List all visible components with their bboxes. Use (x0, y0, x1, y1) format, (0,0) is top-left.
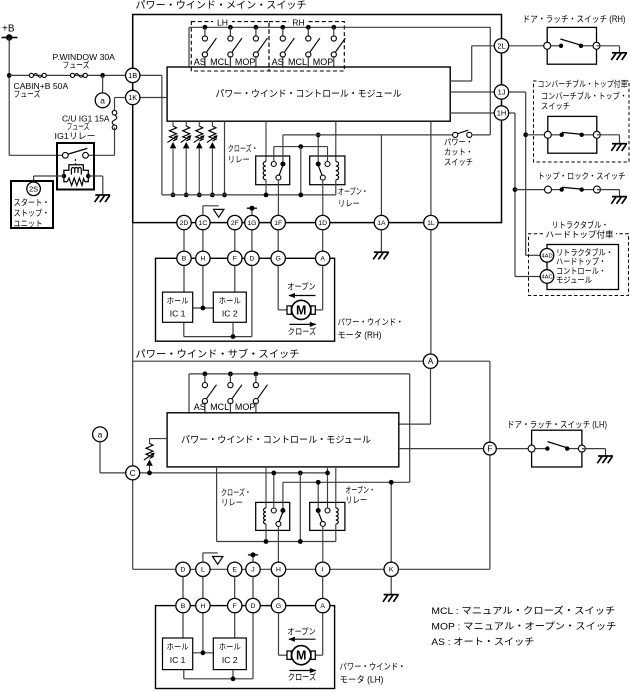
wire switch to module (307, 56, 309, 67)
label open direction (RH) (287, 282, 316, 299)
start stop unit box (11, 181, 53, 228)
label power window motor LH (340, 662, 406, 685)
junction close coil bus (264, 193, 269, 198)
sub switch bus wire (189, 374, 410, 413)
connector 4AC (540, 270, 554, 284)
wire close relay NC riser (273, 147, 275, 162)
dashed box RH switch group (269, 18, 344, 71)
svg-text:パワー・: パワー・ (444, 137, 473, 147)
svg-text:1K: 1K (128, 93, 137, 102)
svg-text:モジュール: モジュール (556, 275, 592, 285)
svg-text:ストップ・: ストップ・ (14, 208, 50, 218)
junction resistor 1 on bus (171, 193, 176, 198)
wire to convertible switch (526, 134, 548, 136)
wire close relay common riser (282, 135, 284, 162)
wire module to 1H (450, 112, 494, 114)
node a (lower) (93, 427, 108, 442)
svg-text:2L: 2L (497, 41, 505, 50)
wire module to close coil (sub) (265, 467, 267, 508)
wire F to hall IC2 (LH) (234, 613, 236, 638)
svg-text:リレー: リレー (345, 495, 367, 505)
label power cut switch (444, 137, 473, 167)
wire G to motor (LH) (279, 613, 288, 655)
stub above J (248, 552, 258, 562)
wire close coil to bus (265, 180, 267, 195)
svg-text:AS : オート・スイッチ: AS : オート・スイッチ (431, 636, 534, 647)
svg-text:M: M (296, 303, 306, 317)
wire K to ground (390, 577, 392, 595)
convertible top switch box (548, 116, 597, 153)
svg-text:パワー・ウインド・コントロール・モジュール: パワー・ウインド・コントロール・モジュール (181, 434, 371, 445)
wire module to LED bus (224, 121, 226, 195)
connector 4AD (540, 249, 554, 263)
svg-text:IG1リレー: IG1リレー (55, 131, 96, 141)
wire D ground bus (LH) (184, 613, 253, 681)
wire open coil to bus end (335, 180, 337, 195)
junction NC tap (298, 144, 303, 149)
wire 1G down (251, 230, 253, 251)
wire sub switch to module (204, 403, 206, 413)
svg-text:1B: 1B (128, 71, 137, 80)
wire bus drop to module (188, 27, 190, 67)
fuse P.WINDOW 30A (29, 73, 46, 77)
signal ground above 1C (203, 206, 224, 217)
svg-text:B: B (182, 256, 187, 263)
svg-text:ユニット: ユニット (14, 219, 43, 229)
switch AS (RH) (280, 27, 294, 57)
junction resistor 2 on bus (184, 193, 189, 198)
wire D ground bus (RH) (184, 266, 252, 340)
svg-text:パワー・ウインド・: パワー・ウインド・ (340, 662, 406, 672)
svg-text:オープン: オープン (287, 282, 316, 292)
connector motor D (RH) (245, 251, 259, 265)
svg-text:B: B (181, 603, 186, 610)
svg-text:フューズ: フューズ (14, 89, 41, 99)
wire F to door latch LH (496, 448, 532, 450)
wire module to coil bus (sub) (217, 467, 336, 542)
lower harness row wire (133, 568, 490, 570)
label convertible top switch (541, 91, 627, 111)
wire E down (lower) (234, 577, 236, 599)
door latch switch LH box (532, 430, 582, 467)
fuse CABIN+B 50A (70, 73, 87, 77)
svg-text:フューズ: フューズ (63, 60, 90, 70)
svg-text:リトラクタブル・: リトラクタブル・ (552, 220, 609, 230)
wire 1H branch (509, 113, 541, 277)
wire 1L to A (430, 230, 432, 354)
junction on bus (254, 25, 259, 30)
switch MCL (LH) (228, 27, 242, 57)
junction +B branch (7, 73, 12, 78)
svg-text:F: F (233, 603, 237, 610)
wire close output to H (277, 526, 279, 562)
wire a to C (100, 441, 126, 473)
motor RH box (156, 258, 335, 341)
svg-text:フューズ: フューズ (67, 122, 90, 132)
ground (door latch LH) (597, 456, 613, 463)
connector 2F (228, 215, 242, 229)
junction module bus (222, 193, 227, 198)
wire H to hall ICs (LH) (193, 613, 214, 655)
connector motor A (LH) (316, 598, 330, 612)
wire convertible to ground (597, 135, 620, 144)
svg-text:ホール: ホール (219, 643, 241, 652)
main switch supply bus wire (189, 26, 490, 28)
wire fuse line (9, 74, 125, 76)
wire D down (lower) (182, 577, 184, 599)
connector 2D (177, 215, 191, 229)
svg-text:1A: 1A (377, 220, 386, 227)
svg-text:ホール: ホール (167, 297, 189, 306)
junction to node a (100, 73, 105, 78)
svg-text:MOP : マニュアル・オープン・スイッチ: MOP : マニュアル・オープン・スイッチ (431, 621, 616, 632)
connector 1F (271, 215, 285, 229)
label open direction (LH) (287, 626, 316, 642)
svg-text:クローズ: クローズ (288, 671, 317, 682)
node F (484, 442, 497, 455)
wire latch LH to ground (582, 449, 606, 456)
wire power cut to bus (472, 27, 490, 135)
svg-text:1L: 1L (427, 220, 435, 227)
svg-text:A: A (428, 356, 434, 366)
wire open coil to bus (sub) (335, 524, 337, 542)
svg-text:スイッチ: スイッチ (444, 157, 473, 167)
svg-text:4AD: 4AD (541, 253, 552, 259)
svg-text:クローズ・: クローズ・ (228, 143, 258, 154)
IG1 relay coil+resistor (62, 165, 91, 186)
connector 1H (494, 106, 508, 120)
svg-text:オープン・: オープン・ (345, 485, 375, 495)
retractable hardtop control module box (547, 245, 619, 290)
label CABIN+B 50A fuse (14, 81, 69, 99)
wire I down (lower) (322, 577, 324, 599)
svg-text:クローズ・: クローズ・ (221, 487, 251, 498)
wire relay coil to ground (88, 176, 103, 195)
power window control module box (main) (167, 67, 450, 121)
svg-text:MCL: MCL (210, 402, 229, 412)
switch MCL (RH) (306, 27, 320, 57)
junction open common (316, 133, 321, 138)
wire G to motor (RH) (278, 266, 287, 310)
door latch switch RH box (547, 27, 596, 64)
wire open NC to C bus (sub) (325, 467, 330, 508)
wire B to hall IC1 (LH) (182, 613, 184, 638)
wire switch to module (255, 56, 257, 67)
label C/U IG1 15A fuse (55, 114, 110, 142)
wire close relay output to 1F (277, 180, 279, 215)
wire switch to module (229, 56, 231, 67)
wire module to open coil (sub) (335, 467, 337, 508)
wire to top lock switch (515, 189, 548, 191)
connector motor G (LH) (271, 598, 285, 612)
connector J (lower) (246, 562, 260, 576)
wire NC link (274, 147, 328, 162)
svg-text:D: D (251, 603, 256, 610)
svg-text:2S: 2S (29, 184, 38, 193)
switch MOP (RH) (331, 27, 345, 57)
svg-text:ドア・ラッチ・スイッチ (LH): ドア・ラッチ・スイッチ (LH) (507, 419, 607, 429)
wire A to motor (RH) (315, 266, 322, 310)
close relay box (sub) (256, 502, 290, 530)
svg-text:2D: 2D (180, 220, 189, 227)
label P.WINDOW 30A fuse (53, 52, 116, 70)
connector 1B (126, 68, 140, 82)
wire 1C down (202, 230, 204, 251)
wire to node a (102, 75, 104, 93)
wire 2L to door latch RH (509, 45, 548, 47)
svg-text:MOP: MOP (313, 57, 334, 67)
svg-text:2F: 2F (231, 220, 239, 227)
wire 1A riser (380, 135, 382, 216)
open relay coil (sub) (336, 508, 338, 524)
relay common feed wire (283, 134, 453, 136)
connector motor D (LH) (246, 598, 260, 612)
ground (1A) (373, 230, 389, 260)
connector 2S (27, 182, 41, 196)
svg-text:オープン: オープン (287, 626, 316, 636)
wire L down (lower) (202, 577, 204, 599)
top lock switch contacts (545, 186, 601, 193)
wire H down (lower) (278, 577, 280, 599)
motor M (LH) (287, 646, 315, 665)
label start stop unit (14, 198, 50, 229)
open relay coil (main) (336, 162, 339, 180)
wire module to close relay coil (265, 121, 267, 161)
node a (upper) (95, 93, 110, 108)
svg-text:1H: 1H (497, 109, 506, 118)
wire +B vertical (8, 38, 10, 156)
wire open output to I (322, 526, 324, 562)
ground (convertible switch) (611, 144, 627, 151)
junction resistor 3 on bus (197, 193, 202, 198)
wire F to hall IC2 (234, 266, 236, 293)
switch MCL (sub) (228, 374, 242, 404)
wire 2F down (234, 230, 236, 251)
wire open common riser (sub) (316, 480, 321, 508)
connector 1L (424, 215, 438, 229)
wire close NC to C bus (271, 471, 276, 509)
ground (K) (383, 595, 399, 602)
connector 2L (494, 39, 508, 53)
wire close common riser (sub) (283, 482, 391, 508)
C bus wire (140, 472, 328, 474)
connector motor G (RH) (271, 251, 285, 265)
junction NC tap bus (298, 193, 303, 198)
label retractable hardtop control module (556, 247, 613, 285)
wire left trunk (main box to C to D row) (132, 223, 134, 570)
wire NC tap to bus (300, 147, 302, 195)
junction resistor C bus (147, 471, 152, 476)
fuse C/U IG1 15A (112, 110, 117, 129)
sub switch box top edge (133, 360, 424, 362)
dashed box convertible top cars (534, 81, 630, 162)
door latch switch LH contacts (528, 442, 585, 453)
connector 1C (196, 215, 210, 229)
power window control module box (sub) (167, 413, 399, 467)
svg-text:リレー: リレー (338, 199, 360, 209)
power window main switch box (133, 15, 502, 223)
connector motor B (LH) (176, 598, 190, 612)
+B terminal (2, 24, 18, 41)
connector K (lower) (384, 562, 398, 576)
svg-text:F: F (233, 256, 237, 263)
svg-text:スイッチ: スイッチ (541, 101, 570, 111)
label power window motor RH (338, 317, 404, 340)
svg-text:ドア・ラッチ・スイッチ (RH): ドア・ラッチ・スイッチ (RH) (523, 14, 626, 24)
wire to K (389, 480, 394, 562)
wire B to hall IC1 (183, 266, 185, 293)
wire open relay output to 1D (322, 180, 324, 215)
svg-text:MOP: MOP (235, 57, 256, 67)
hall IC2 box (RH) (213, 292, 246, 322)
svg-text:リレー: リレー (221, 498, 243, 508)
wire close coil to bus (sub) (264, 524, 269, 544)
wire 1K branch (115, 98, 126, 111)
label open relay (main) (338, 187, 368, 209)
junction C bus tap (298, 471, 303, 476)
switch AS (LH) (202, 27, 216, 57)
svg-text:G: G (276, 256, 281, 263)
indicator resistor 4 (207, 121, 218, 195)
wire 1B to LED bus (140, 75, 162, 194)
open relay contacts (sub) (316, 508, 330, 526)
wire module to 1J (450, 91, 494, 93)
connector motor H (RH) (196, 251, 210, 265)
junction on sub bus (254, 372, 259, 377)
svg-text:パワー・ウインド・: パワー・ウインド・ (338, 317, 404, 327)
wire 1J branch (509, 92, 541, 255)
svg-text:1D: 1D (318, 220, 327, 227)
svg-text:H: H (276, 567, 281, 574)
svg-text:I: I (322, 567, 324, 574)
indicator resistor 2 (181, 121, 192, 195)
IG1 relay contact (62, 148, 88, 165)
junction top lock tap (513, 187, 518, 192)
svg-text:A: A (320, 256, 325, 263)
wire H to hall ICs (193, 266, 214, 311)
wire top lock to ground (597, 190, 620, 197)
LED return bus wire (162, 194, 336, 196)
wire sub switch to module (229, 403, 231, 413)
wire switch to module (282, 56, 284, 67)
svg-text:カット・: カット・ (444, 147, 473, 157)
junction resistor 4 on bus (210, 193, 215, 198)
svg-text:D: D (181, 567, 186, 574)
connector motor A (RH) (316, 251, 330, 265)
svg-text:リレー: リレー (228, 155, 250, 165)
label close direction (RH) (288, 322, 317, 337)
svg-text:MCL: MCL (210, 57, 229, 67)
wire 1D down (322, 230, 324, 251)
connector D (lower) (176, 562, 190, 576)
svg-text:スタート・: スタート・ (14, 198, 50, 208)
IG1 relay box (57, 143, 94, 190)
wire sub bus to relay feed (391, 374, 410, 482)
wire 1K to module (140, 97, 167, 99)
svg-text:H: H (200, 256, 205, 263)
indicator resistor 3 (194, 121, 205, 195)
convertible top switch contacts (544, 131, 600, 138)
svg-text:パワー・ウインド・メイン・スイッチ: パワー・ウインド・メイン・スイッチ (136, 0, 307, 12)
svg-text:クローズ: クローズ (288, 326, 317, 337)
power cut switch (453, 130, 472, 137)
svg-text:C: C (130, 468, 136, 478)
svg-text:MCL: MCL (288, 57, 307, 67)
svg-text:ホール: ホール (167, 643, 189, 652)
svg-text:IC 2: IC 2 (222, 655, 238, 665)
svg-text:ホール: ホール (219, 297, 241, 306)
svg-text:トップ・ロック・スイッチ: トップ・ロック・スイッチ (538, 171, 626, 181)
wire latch RH to ground (597, 46, 620, 53)
svg-text:F: F (487, 444, 492, 454)
connector motor B (RH) (177, 251, 191, 265)
wire fuse to relay contact (88, 127, 114, 155)
wire sub switch to module (255, 403, 257, 413)
junction on sub bus (203, 372, 208, 377)
svg-text:コンバーチブル・トップ・: コンバーチブル・トップ・ (541, 91, 627, 101)
wire A to K drop (438, 361, 490, 569)
open relay box (sub) (310, 502, 345, 530)
svg-text:G: G (276, 603, 281, 610)
switch AS (sub) (202, 374, 216, 404)
svg-text:J: J (251, 567, 254, 574)
hall IC1 box (LH) (163, 638, 193, 670)
svg-text:オープン・: オープン・ (338, 187, 368, 197)
wire 1F down (277, 230, 279, 251)
indicator resistor 1 (167, 121, 178, 195)
junction coil bus tap (298, 539, 303, 544)
svg-text:AS: AS (272, 57, 284, 67)
switch MOP (sub) (253, 374, 267, 404)
connector motor F (RH) (228, 251, 242, 265)
svg-text:4AC: 4AC (541, 275, 552, 281)
motor M (RH) (287, 300, 315, 319)
svg-text:H: H (200, 603, 205, 610)
connector 1K (126, 90, 140, 104)
svg-text:IC 1: IC 1 (170, 655, 186, 665)
wire J down (lower) (252, 577, 254, 599)
node C (126, 466, 140, 480)
svg-text:MOP: MOP (235, 402, 256, 412)
label close direction (LH) (288, 668, 317, 682)
svg-text:IC 1: IC 1 (170, 309, 186, 319)
label close relay (main) (228, 143, 258, 165)
stub above 1G (247, 206, 257, 216)
svg-text:AS: AS (194, 57, 206, 67)
label open relay (sub) (345, 485, 375, 505)
wire 2D down (183, 230, 185, 251)
label close relay (sub) (221, 487, 251, 508)
wire +B to relay contact (9, 154, 62, 156)
junction on sub bus (228, 372, 233, 377)
connector 1D (316, 215, 330, 229)
signal ground above L (203, 553, 223, 564)
close relay box (main) (256, 156, 290, 185)
svg-text:AS: AS (194, 402, 206, 412)
svg-text:1G: 1G (247, 220, 256, 227)
svg-text:M: M (296, 649, 306, 663)
svg-text:モータ (LH): モータ (LH) (340, 675, 384, 685)
motor LH box (156, 606, 335, 689)
connector motor F (LH) (228, 598, 242, 612)
junction on bus (306, 25, 311, 30)
svg-text:パワー・ウインド・コントロール・モジュール: パワー・ウインド・コントロール・モジュール (216, 88, 402, 99)
wire relay coil to 2S unit (34, 176, 64, 181)
ground (door latch RH) (611, 53, 627, 60)
connector 1J (494, 85, 508, 99)
connector I (lower) (316, 562, 330, 576)
svg-text:コンバーチブル・トップ付車: コンバーチブル・トップ付車 (538, 79, 628, 89)
